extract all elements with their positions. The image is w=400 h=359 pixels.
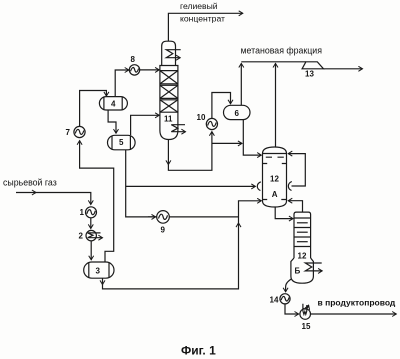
exchanger E1: [86, 207, 97, 218]
pump P15: [300, 304, 311, 320]
wire vessel6 vapor to methane header: [240, 63, 242, 105]
svg-text:14: 14: [270, 295, 279, 304]
column 11 neck: [162, 41, 176, 65]
vessel V6: [224, 105, 251, 119]
wire methane fraction header: [241, 61, 306, 63]
vessel V5: [108, 135, 136, 150]
svg-text:3: 3: [96, 267, 101, 276]
vessel V3: [84, 262, 114, 278]
expander 13: [302, 62, 323, 69]
svg-text:сырьевой газ: сырьевой газ: [3, 178, 57, 188]
wire product pipeline: [311, 313, 397, 315]
svg-text:11: 11: [164, 115, 173, 124]
column 11 condenser coil: [166, 50, 180, 58]
wire vessel5 top to column 11: [131, 115, 160, 135]
wire tee to 12A middle inlet with squiggle: [126, 185, 256, 187]
svg-text:13: 13: [305, 70, 314, 79]
vessel V4: [99, 97, 127, 110]
exchanger E8: [129, 65, 139, 75]
wire vessel6 bottom to 12A top inlet: [243, 120, 261, 155]
svg-text:Б: Б: [295, 267, 301, 276]
svg-text:концентрат: концентрат: [180, 14, 225, 24]
svg-text:6: 6: [235, 109, 240, 118]
exchanger E7: [74, 126, 85, 137]
svg-text:2: 2: [79, 232, 84, 241]
wire exchanger14 to pump 15: [285, 304, 299, 314]
wire feed gas arrowed start: [16, 192, 36, 194]
wire 12B bottoms to exchanger 14: [286, 279, 292, 292]
12B trays: [294, 218, 311, 247]
wire vessel4 top to exchanger 8 to column 11: [115, 70, 129, 97]
svg-text:гелиевый: гелиевый: [180, 1, 218, 11]
throttle E2: [86, 230, 103, 240]
wire feed gas to exchanger 1 and 2 and vessel 3: [33, 193, 91, 205]
exchanger E14: [280, 294, 290, 304]
wire column11 bottoms to exchanger 10: [167, 140, 169, 165]
svg-text:А: А: [272, 190, 278, 199]
vessel 12B bottom bulge: [291, 258, 314, 283]
wire 12A right recycle loop with squiggle: [288, 154, 305, 186]
wire 12B overhead to 12A: [288, 201, 302, 212]
wire tee from riser to vessel6 drain line: [212, 142, 242, 144]
12A dome chord: [263, 153, 287, 155]
wire helium concentrate offtake: [168, 13, 242, 43]
svg-text:15: 15: [302, 322, 311, 331]
wire vessel5 bottom through exchanger 9 to junction: [126, 150, 239, 217]
svg-text:9: 9: [161, 226, 166, 235]
wire vessel4 bottom to vessel 5: [108, 110, 116, 133]
svg-text:1: 1: [80, 208, 85, 217]
squiggle at 12A mid-left inlet: [257, 182, 261, 191]
svg-text:12: 12: [298, 252, 307, 261]
svg-text:7: 7: [66, 128, 71, 137]
vessel 12B top section: [294, 212, 311, 260]
wire vessel3 bottoms to 12A lower inlet: [102, 278, 104, 284]
column 11 body: [160, 66, 178, 140]
wire vessel3 vapor to exchanger 7 to vessel 4: [80, 141, 114, 262]
wire 12A overhead to methane header: [275, 63, 277, 147]
svg-text:метановая фракция: метановая фракция: [241, 46, 323, 56]
12A internals ticks: [266, 156, 284, 158]
svg-text:в продуктопровод: в продуктопровод: [318, 298, 396, 308]
column 11 reboil coil: [171, 125, 185, 132]
column 11 packing X boxes: [160, 71, 178, 113]
svg-text:12: 12: [270, 175, 279, 184]
wire 12A bottoms to 12B: [275, 207, 293, 219]
svg-text:10: 10: [197, 113, 206, 122]
12B reboil coil: [305, 263, 322, 271]
svg-text:Фиг. 1: Фиг. 1: [181, 344, 216, 358]
svg-text:4: 4: [111, 100, 116, 109]
exchanger E9: [157, 211, 170, 224]
vessel 12A: [263, 147, 287, 207]
exchanger E10: [206, 118, 217, 129]
svg-text:5: 5: [119, 138, 124, 147]
svg-text:8: 8: [131, 55, 136, 64]
